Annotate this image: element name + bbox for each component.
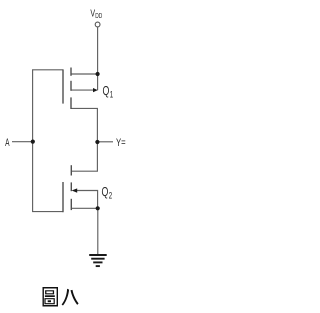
svg-text:Q: Q: [102, 186, 109, 200]
svg-text:2: 2: [109, 190, 112, 201]
svg-text:V: V: [90, 7, 95, 19]
svg-text:Y=: Y=: [116, 137, 126, 150]
svg-text:DD: DD: [95, 12, 103, 20]
svg-text:Q: Q: [103, 85, 110, 99]
svg-text:A: A: [5, 136, 10, 148]
svg-text:1: 1: [110, 89, 113, 100]
